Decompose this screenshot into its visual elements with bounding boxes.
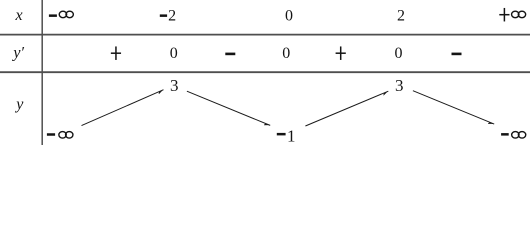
arrow falling from 3 to -1 xyxy=(187,91,270,125)
minus of -infinity (y row bottom right) xyxy=(501,133,509,136)
arrow rising from -infinity to 3 xyxy=(82,90,164,126)
svg-text:2: 2 xyxy=(168,7,176,24)
svg-text:2: 2 xyxy=(397,7,405,24)
svg-text:0: 0 xyxy=(285,7,293,24)
svg-text:0: 0 xyxy=(282,45,290,62)
svg-text:3: 3 xyxy=(170,76,179,95)
svg-text:0: 0 xyxy=(395,45,403,62)
infinity of -infinity (y row bottom left) xyxy=(59,132,73,139)
svg-text:y′: y′ xyxy=(11,45,24,62)
minus of -infinity (y row bottom left) xyxy=(47,133,55,136)
plus of +infinity (x row) xyxy=(499,8,509,22)
table horizontal rule 2 xyxy=(0,71,530,73)
sign minus (y' row, fourth interval) xyxy=(452,53,462,56)
svg-text:1: 1 xyxy=(287,126,296,145)
minus of -1 (local minimum) xyxy=(277,133,286,136)
svg-text:0: 0 xyxy=(170,45,178,62)
svg-text:3: 3 xyxy=(395,76,404,95)
sign + (y' row, first interval) xyxy=(111,46,121,60)
svg-text:x: x xyxy=(15,7,23,24)
infinity of -infinity (x row left) xyxy=(59,11,73,18)
sign + (y' row, third interval) xyxy=(336,46,346,60)
arrow falling from 3 to -infinity xyxy=(413,91,494,124)
table vertical rule xyxy=(41,0,43,145)
table horizontal rule 1 xyxy=(0,34,530,36)
svg-text:y: y xyxy=(14,96,24,113)
sign minus (y' row, second interval) xyxy=(225,53,235,56)
minus of -2 (x row) xyxy=(160,14,167,17)
minus of -infinity (x row left) xyxy=(49,14,57,17)
infinity of +infinity (x row) xyxy=(512,11,526,18)
infinity of -infinity (y row bottom right) xyxy=(512,132,526,139)
arrow rising from -1 to 3 xyxy=(305,91,388,126)
